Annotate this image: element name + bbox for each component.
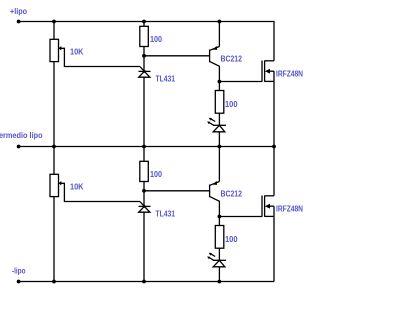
potentiometer VR2 10K body <box>50 174 59 196</box>
junction -lipo rail / U2 anode <box>142 280 146 284</box>
value label 10K (VR2) <box>70 183 84 192</box>
svg-text:10K: 10K <box>70 183 84 192</box>
wire -lipo rail <box>19 281 274 283</box>
wire Q3 base <box>144 190 210 192</box>
wire VR2 wiper to TL431 ref <box>61 183 140 201</box>
wire top +lipo rail <box>19 21 274 23</box>
wire R4 top lead <box>218 217 220 226</box>
junction node D (Q3 collector / R4 / Q4 gate) <box>218 215 222 219</box>
potentiometer VR1 wiper arrow <box>59 46 62 50</box>
resistor R3 100 body <box>140 161 149 181</box>
mosfet Q2 source stub <box>265 80 274 82</box>
node +lipo label <box>10 7 27 16</box>
TL431 U1 ref diagonal <box>140 67 144 72</box>
junction top rail / R1 <box>142 20 146 24</box>
transistor Q3 collector diagonal <box>210 197 220 217</box>
transistor Q3 emitter diagonal <box>210 182 220 186</box>
wire Q2 gate <box>219 81 262 83</box>
svg-text:BC212: BC212 <box>221 55 243 64</box>
wire R3 bottom to node C <box>143 182 145 191</box>
transistor Q1 BC212 emitter lead <box>218 22 220 47</box>
mosfet Q4 body stub with arrow <box>265 204 274 209</box>
wire U2 anode to -lipo rail <box>143 212 145 281</box>
resistor R2 100 body <box>215 91 224 114</box>
potentiometer VR1 10K body <box>50 39 59 61</box>
junction node B (Q1 collector / R2 / Q2 gate) <box>218 80 222 84</box>
mosfet Q4 channel bar <box>264 196 266 217</box>
TL431 U2 ref diagonal <box>140 202 144 207</box>
resistor R4 100 body <box>215 226 224 249</box>
part label BC212 (Q1) <box>221 55 243 64</box>
svg-text:intermedio lipo: intermedio lipo <box>0 131 43 140</box>
mosfet Q2 drain stub <box>265 60 274 62</box>
LED D2 cathode bar <box>213 259 226 261</box>
wire R2 top lead <box>218 82 220 91</box>
mosfet Q2 body-source tie <box>273 71 275 81</box>
node intermedio lipo label <box>0 131 43 140</box>
junction mid rail / VR1-VR2 <box>52 145 56 149</box>
node -lipo terminal dot <box>17 280 21 284</box>
part label TL431 (U2) <box>156 210 176 219</box>
junction top rail / Q1 emitter <box>218 20 222 24</box>
wire U2 cathode lead <box>143 191 145 207</box>
wire R2 bottom to LED D1 <box>218 113 220 125</box>
wire Q2 source to intermedio rail <box>273 81 275 146</box>
value label 100 (R4) <box>225 235 238 244</box>
junction node C (R3 / Q3 base / U2 cathode) <box>142 189 146 193</box>
junction mid rail / U1 anode / R3 <box>142 145 146 149</box>
mosfet Q4 source stub <box>265 215 274 217</box>
mosfet Q2 body stub with arrow <box>265 69 274 74</box>
junction -lipo rail / VR2 <box>52 280 56 284</box>
mosfet Q2 channel bar <box>264 61 266 82</box>
node intermedio terminal dot <box>17 145 21 149</box>
value label 100 (R2) <box>225 100 238 109</box>
transistor Q3 emitter arrowhead <box>213 181 217 185</box>
transistor Q1 base bar <box>209 50 211 63</box>
svg-text:100: 100 <box>225 100 238 109</box>
junction node A (R1 / Q1 base / U1 cathode) <box>142 54 146 58</box>
svg-text:10K: 10K <box>70 48 84 57</box>
junction mid rail / D1 / Q3 emitter <box>218 145 222 149</box>
node -lipo label <box>12 267 26 276</box>
part label IRFZ48N (Q4) <box>276 205 303 214</box>
transistor Q1 collector diagonal <box>210 62 220 82</box>
resistor R1 100 body <box>140 26 149 46</box>
value label 100 (R3) <box>150 170 162 179</box>
transistor Q3 BC212 emitter lead <box>218 147 220 182</box>
mosfet Q4 body-source tie <box>273 206 275 216</box>
junction mid rail / Q2 source / Q4 drain <box>272 145 276 149</box>
wire D1 anode to intermedio rail <box>218 132 220 147</box>
svg-text:BC212: BC212 <box>221 190 243 199</box>
wire R1 bottom to node A <box>143 47 145 56</box>
LED D1 triangle <box>213 125 225 132</box>
wire R4 bottom to LED D2 <box>218 248 220 260</box>
node +lipo terminal dot <box>17 20 21 24</box>
transistor Q3 base bar <box>209 185 211 198</box>
TL431 U1 triangle <box>139 71 150 77</box>
value label 100 (R1) <box>150 35 162 44</box>
svg-text:100: 100 <box>150 170 162 179</box>
wire U1 cathode lead <box>143 56 145 72</box>
wire D2 anode to -lipo rail <box>218 267 220 282</box>
wire Q4 drain to intermedio rail <box>273 147 275 196</box>
junction top rail / VR1 <box>52 20 56 24</box>
wire VR1 bottom lead <box>53 62 55 147</box>
LED D2 triangle <box>213 260 225 267</box>
transistor Q1 emitter arrowhead <box>213 46 217 50</box>
LED D1 emission arrows <box>207 118 215 125</box>
junction -lipo rail / D2 anode <box>218 280 222 284</box>
svg-text:TL431: TL431 <box>156 75 176 84</box>
mosfet Q4 gate bar <box>261 196 263 217</box>
wire Q2 drain to +lipo rail <box>273 21 275 61</box>
wire Q4 gate <box>219 216 262 218</box>
mosfet Q2 gate bar <box>261 61 263 82</box>
LED D1 cathode bar <box>213 124 226 126</box>
svg-text:IRFZ48N: IRFZ48N <box>276 70 303 79</box>
wire U1 anode to intermedio rail <box>143 77 145 146</box>
TL431 U1 ref junction dot <box>143 70 146 73</box>
wire R1 top lead <box>143 22 145 27</box>
svg-text:-lipo: -lipo <box>12 267 26 276</box>
svg-text:+lipo: +lipo <box>10 7 27 16</box>
wire VR2 top lead <box>53 147 55 175</box>
part label TL431 (U1) <box>156 75 176 84</box>
TL431 U1 cathode bar <box>139 70 151 72</box>
wire VR2 bottom lead <box>53 197 55 282</box>
wire intermedio lipo rail <box>19 146 274 148</box>
wire Q4 source to -lipo rail <box>273 216 275 281</box>
transistor Q1 emitter diagonal <box>210 47 220 51</box>
wire Q1 base <box>144 55 210 57</box>
LED D2 emission arrows <box>207 253 215 260</box>
potentiometer VR2 wiper arrow <box>59 181 62 185</box>
svg-text:IRFZ48N: IRFZ48N <box>276 205 303 214</box>
wire VR1 wiper to TL431 ref <box>61 48 140 66</box>
mosfet Q4 drain stub <box>265 195 274 197</box>
part label BC212 (Q3) <box>221 190 243 199</box>
TL431 U2 ref junction dot <box>143 205 146 208</box>
part label IRFZ48N (Q2) <box>276 70 303 79</box>
wire R3 top lead <box>143 147 145 162</box>
TL431 U2 triangle <box>139 206 150 212</box>
svg-text:100: 100 <box>150 35 162 44</box>
value label 10K (VR1) <box>70 48 84 57</box>
svg-text:100: 100 <box>225 235 238 244</box>
TL431 U2 cathode bar <box>139 205 151 207</box>
svg-text:TL431: TL431 <box>156 210 176 219</box>
wire VR1 top lead <box>53 22 55 40</box>
